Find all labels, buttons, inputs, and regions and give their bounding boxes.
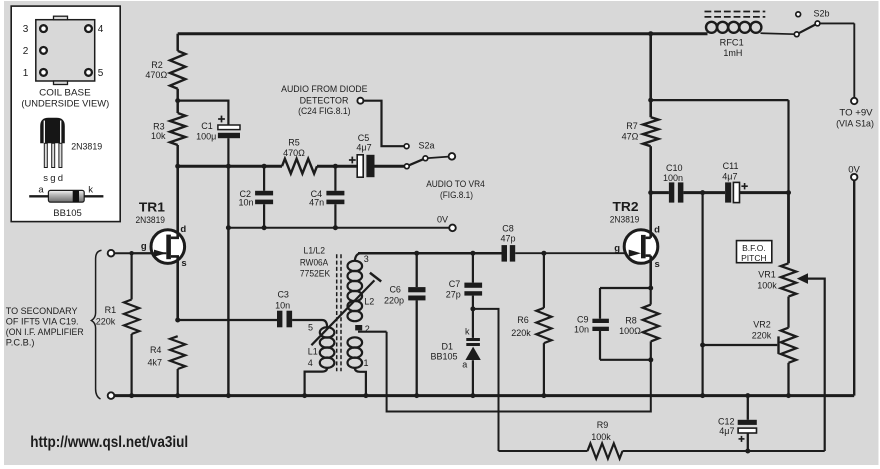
svg-text:5: 5 [98,68,104,79]
svg-text:4μ7: 4μ7 [356,142,371,152]
svg-text:C6: C6 [389,285,401,295]
svg-text:RW06A: RW06A [300,257,328,267]
svg-text:R5: R5 [288,138,300,148]
svg-text:10n: 10n [574,324,589,334]
svg-text:C5: C5 [358,133,370,143]
svg-text:4k7: 4k7 [148,357,163,367]
svg-text:R4: R4 [150,345,162,355]
svg-text:s: s [43,173,48,184]
svg-text:TO +9V: TO +9V [839,108,873,119]
svg-text:OF IFT5 VIA C19.: OF IFT5 VIA C19. [6,317,79,327]
svg-text:C9: C9 [577,314,589,324]
svg-text:C10: C10 [666,163,683,173]
svg-text:S2a: S2a [418,140,434,150]
svg-text:10n: 10n [238,197,253,207]
svg-text:TR1: TR1 [139,200,165,215]
svg-text:PITCH: PITCH [741,253,767,263]
svg-text:VR2: VR2 [753,319,771,329]
svg-text:COIL BASE: COIL BASE [39,87,91,98]
svg-text:100n: 100n [663,173,683,183]
svg-text:a: a [462,359,467,369]
svg-text:a: a [38,185,44,196]
svg-text:5: 5 [308,322,313,332]
svg-text:http://www.qsl.net/va3iul: http://www.qsl.net/va3iul [30,434,188,451]
svg-text:AUDIO FROM DIODE: AUDIO FROM DIODE [281,84,367,94]
svg-text:0V: 0V [437,215,448,225]
svg-text:d: d [58,173,63,184]
svg-text:R2: R2 [151,60,163,70]
svg-text:D1: D1 [442,341,454,351]
svg-text:P.C.B.): P.C.B.) [6,338,35,348]
svg-text:TO SECONDARY: TO SECONDARY [6,306,78,316]
svg-text:s: s [181,258,186,269]
svg-text:2N3819: 2N3819 [135,215,165,225]
svg-text:C12: C12 [718,416,735,426]
svg-text:47n: 47n [309,197,324,207]
svg-text:10k: 10k [151,131,166,141]
svg-text:R7: R7 [626,121,638,131]
svg-text:k: k [88,185,93,196]
svg-text:2N3819: 2N3819 [610,214,640,224]
svg-text:R8: R8 [625,315,637,325]
svg-text:3: 3 [23,24,29,35]
svg-text:C3: C3 [277,290,289,300]
svg-text:100k: 100k [757,281,777,291]
svg-text:220p: 220p [384,295,404,305]
svg-text:2: 2 [23,46,29,57]
svg-text:g: g [141,241,147,252]
svg-text:g: g [614,243,620,254]
svg-text:L1/L2: L1/L2 [304,245,326,255]
svg-text:100μ: 100μ [196,131,216,141]
svg-text:S2b: S2b [813,9,829,19]
svg-text:R9: R9 [597,420,609,430]
svg-text:C11: C11 [723,161,739,171]
svg-text:L2: L2 [364,296,374,306]
svg-text:R6: R6 [517,315,529,325]
svg-text:BB105: BB105 [53,208,82,219]
svg-text:g: g [50,173,55,184]
svg-text:(C24 FIG.8.1): (C24 FIG.8.1) [298,106,350,116]
svg-text:7752EK: 7752EK [300,268,330,278]
svg-text:C1: C1 [201,121,213,131]
svg-text:1: 1 [23,68,29,79]
svg-text:d: d [654,224,660,235]
svg-text:d: d [180,224,186,235]
svg-text:220k: 220k [511,328,531,338]
svg-text:(VIA S1a): (VIA S1a) [836,119,874,130]
svg-text:100Ω: 100Ω [619,326,641,336]
svg-text:27p: 27p [446,289,461,299]
svg-text:TR2: TR2 [613,199,639,214]
svg-text:4μ7: 4μ7 [722,172,737,182]
svg-text:DETECTOR: DETECTOR [300,96,349,106]
svg-text:2: 2 [365,324,370,334]
svg-text:10n: 10n [275,300,290,310]
svg-text:(FIG.8.1): (FIG.8.1) [440,190,473,200]
svg-text:VR1: VR1 [758,269,776,279]
svg-text:2N3819: 2N3819 [71,141,102,152]
svg-text:100k: 100k [591,432,611,442]
svg-text:AUDIO TO VR4: AUDIO TO VR4 [426,179,485,189]
svg-text:(ON I.F. AMPLIFIER: (ON I.F. AMPLIFIER [6,327,84,337]
svg-text:(UNDERSIDE VIEW): (UNDERSIDE VIEW) [21,98,109,109]
svg-text:s: s [655,259,660,270]
svg-text:R1: R1 [105,305,117,315]
svg-text:470Ω: 470Ω [145,70,167,80]
svg-text:1mH: 1mH [723,48,742,58]
svg-text:47Ω: 47Ω [622,132,639,142]
svg-text:RFC1: RFC1 [720,38,744,48]
svg-text:3: 3 [364,254,369,264]
svg-text:220k: 220k [96,317,116,327]
svg-text:4: 4 [98,24,104,35]
svg-text:k: k [465,327,470,337]
svg-text:470Ω: 470Ω [283,148,305,158]
svg-text:BB105: BB105 [430,352,457,362]
svg-text:B.F.O.: B.F.O. [742,243,766,253]
svg-text:4μ7: 4μ7 [719,426,734,436]
svg-text:L1: L1 [308,347,318,357]
svg-text:C7: C7 [449,279,461,289]
svg-text:1: 1 [363,358,368,368]
svg-text:C8: C8 [502,223,514,233]
svg-text:47p: 47p [500,234,515,244]
svg-text:220k: 220k [752,331,772,341]
svg-text:4: 4 [308,358,313,368]
